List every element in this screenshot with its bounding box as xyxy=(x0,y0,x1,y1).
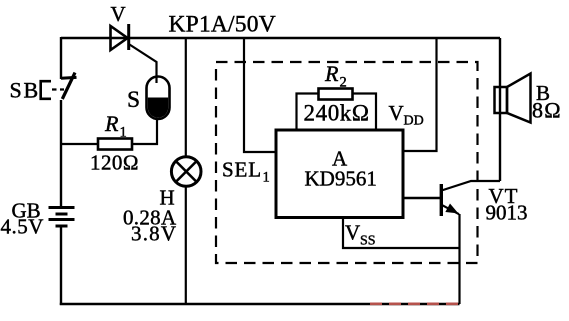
lamp H xyxy=(171,157,201,187)
svg-text:V: V xyxy=(345,221,360,245)
wire: VSS pin xyxy=(343,218,460,249)
wire: VDD pin to top rail xyxy=(403,38,437,151)
svg-text:R: R xyxy=(324,61,339,86)
IC A KD9561 xyxy=(276,130,403,218)
dashed box (alarm module boundary) xyxy=(216,62,478,263)
svg-text:1: 1 xyxy=(263,170,270,186)
wire: bottom rail red dashed overlay xyxy=(370,302,458,305)
svg-text:KP1A/50V: KP1A/50V xyxy=(169,12,276,38)
wire: left rail lower (battery to bottom) xyxy=(60,227,62,306)
svg-text:S: S xyxy=(127,87,140,113)
svg-text:SS: SS xyxy=(360,234,376,249)
thyristor V (KP1A/50V) xyxy=(111,24,157,78)
wire: left rail middle (switch to battery) xyxy=(60,100,62,207)
wire: top rail xyxy=(61,37,500,39)
svg-text:DD: DD xyxy=(404,114,424,129)
pushbutton switch SB xyxy=(41,73,77,99)
transistor VT (9013) xyxy=(441,181,500,216)
svg-text:240kΩ: 240kΩ xyxy=(304,101,370,126)
svg-text:V: V xyxy=(389,101,404,125)
svg-text:3.8V: 3.8V xyxy=(131,222,177,246)
wire: left rail upper (to switch) xyxy=(60,37,62,79)
resistor R2 xyxy=(297,89,377,129)
wire: base wire from IC to transistor xyxy=(403,197,441,199)
wire: lamp branch lower xyxy=(185,186,187,304)
svg-text:9013: 9013 xyxy=(486,201,528,225)
wire: emitter to bottom rail xyxy=(458,214,460,304)
svg-text:2: 2 xyxy=(340,75,347,91)
svg-text:R: R xyxy=(104,111,119,136)
wire: right rail (top rail to collector corner) xyxy=(499,38,501,181)
mercury switch S xyxy=(147,76,170,119)
svg-text:SB: SB xyxy=(10,78,41,103)
svg-text:KD9561: KD9561 xyxy=(305,167,377,191)
speaker B xyxy=(495,74,531,123)
svg-text:4.5V: 4.5V xyxy=(1,215,44,239)
svg-text:8Ω: 8Ω xyxy=(532,98,562,123)
svg-text:SEL: SEL xyxy=(222,158,262,182)
wire: SEL1 branch from top rail xyxy=(244,38,276,152)
resistor R1 xyxy=(61,139,158,150)
battery GB xyxy=(49,208,75,227)
svg-text:V: V xyxy=(111,2,126,26)
wire: S bottom lead to R1 xyxy=(156,118,158,145)
svg-text:120Ω: 120Ω xyxy=(90,151,139,175)
wire: lamp branch upper xyxy=(185,38,187,157)
wire: bottom rail xyxy=(60,303,460,306)
svg-text:1: 1 xyxy=(120,125,127,141)
